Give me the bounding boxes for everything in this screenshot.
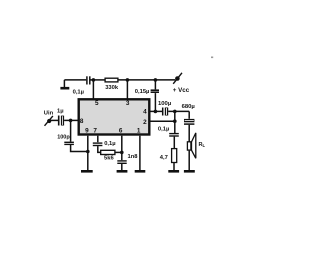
svg-text:4: 4 (143, 109, 147, 116)
svg-text:0,1µ: 0,1µ (158, 126, 169, 132)
svg-text:1µ: 1µ (57, 109, 64, 115)
svg-text:4,7: 4,7 (160, 155, 168, 161)
svg-text:2: 2 (143, 119, 147, 126)
svg-text:RL: RL (199, 142, 206, 148)
svg-text:3: 3 (126, 100, 130, 107)
svg-text:5: 5 (95, 100, 99, 107)
svg-text:9: 9 (85, 128, 89, 135)
svg-text:0,1µ: 0,1µ (73, 90, 84, 96)
svg-text:6: 6 (119, 128, 123, 135)
svg-text:100p: 100p (57, 135, 70, 141)
svg-text:680µ: 680µ (182, 104, 196, 110)
svg-text:0,1µ: 0,1µ (104, 141, 115, 147)
svg-text:330k: 330k (105, 85, 119, 91)
svg-text:0,15µ: 0,15µ (135, 89, 150, 95)
svg-text:Uin: Uin (44, 110, 54, 116)
svg-text:+ Vcc: + Vcc (173, 87, 190, 94)
svg-text:5k6: 5k6 (104, 155, 114, 161)
svg-text:1: 1 (137, 128, 141, 135)
svg-text:1n8: 1n8 (128, 154, 139, 160)
svg-text:100µ: 100µ (158, 101, 172, 107)
svg-text:8: 8 (80, 118, 84, 125)
svg-text:7: 7 (93, 128, 97, 135)
